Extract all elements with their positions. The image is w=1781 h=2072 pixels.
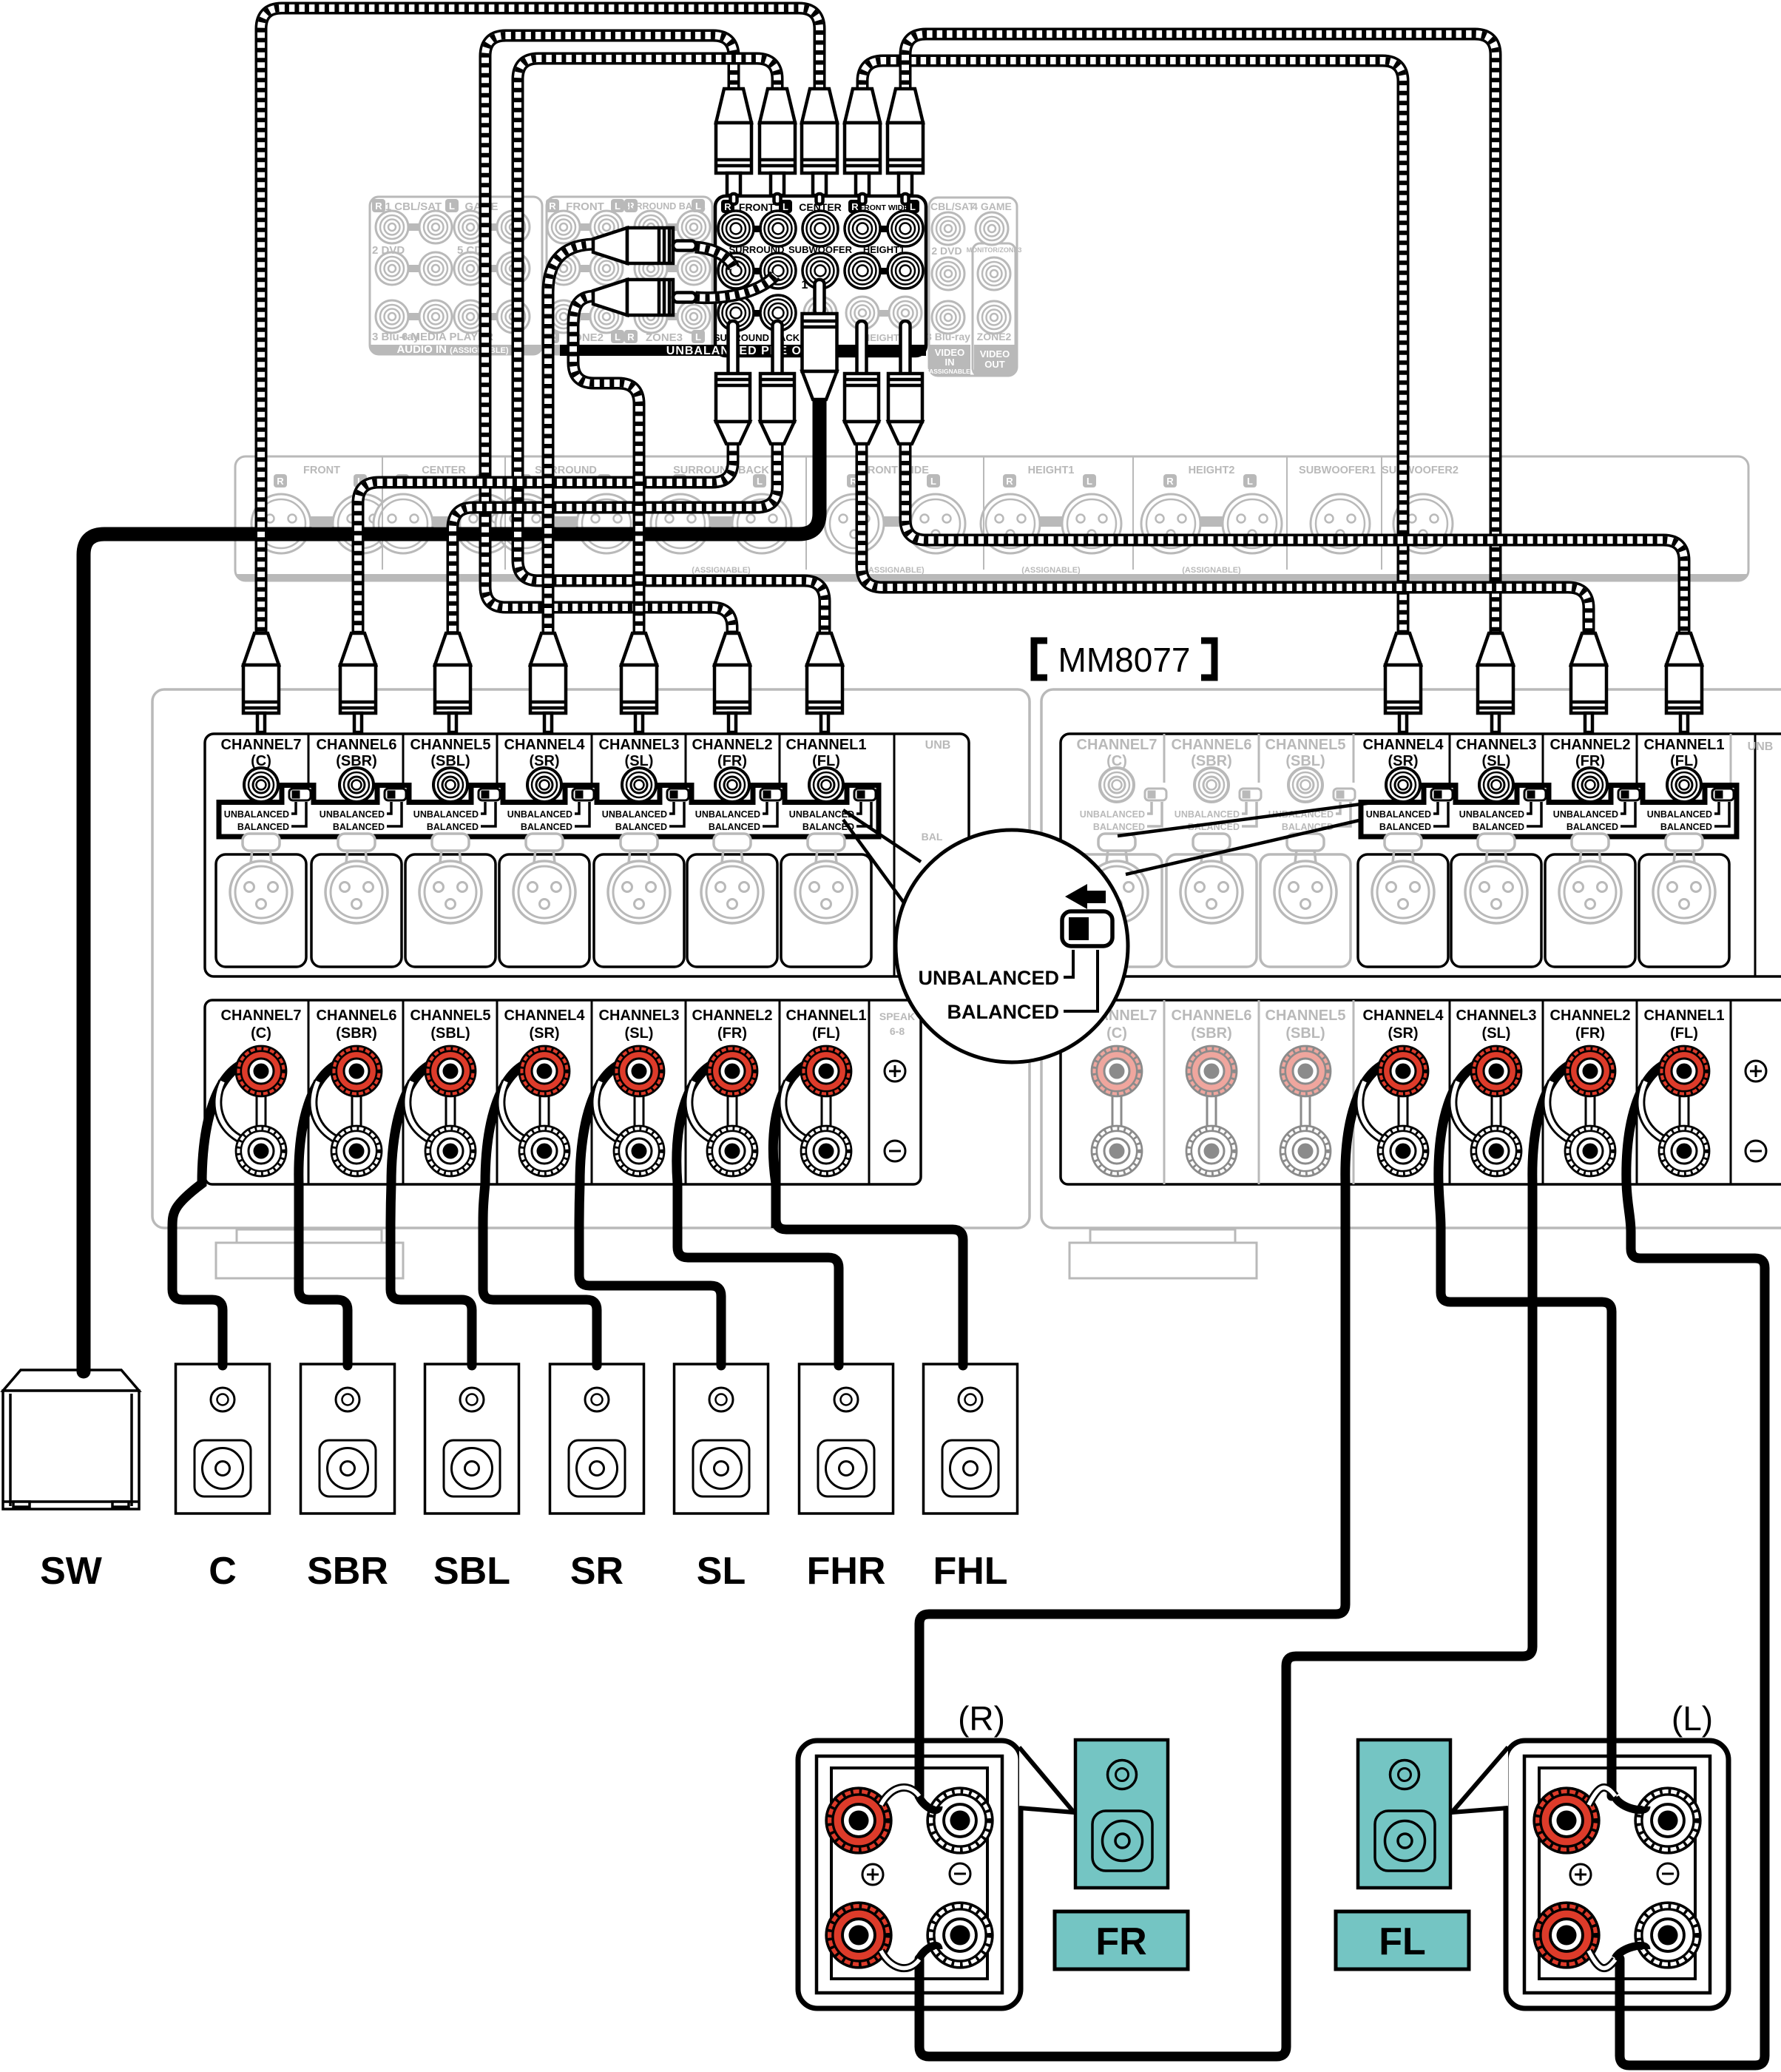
svg-text:SUBWOOFER1: SUBWOOFER1 [1299,465,1376,476]
svg-text:CHANNEL1: CHANNEL1 [786,1008,867,1024]
speaker terminals CHANNEL1 [1644,1008,1725,1176]
speaker terminals CHANNEL3 [1456,1008,1537,1176]
RCA plug at pre-out SURROUND BACK L jack [760,321,794,444]
subwoofer cable SW [84,392,819,1371]
svg-text:C: C [209,1550,237,1593]
svg-text:CHANNEL6: CHANNEL6 [317,1008,397,1024]
RCA plug into pre-out FRONT L jack [760,89,795,204]
terminal wire hook [595,1081,621,1141]
svg-text:HEIGHT1: HEIGHT1 [1028,465,1075,476]
cable stub into SURROUND L jack [695,275,775,298]
cable FRONT WIDE L pre-out to right amp CH3 [905,34,1496,638]
svg-text:SPEAK: SPEAK [879,1010,915,1022]
RCA plug into left amp CHANNEL3 [621,633,657,732]
amp input CHANNEL7 (C) [1077,737,1166,832]
svg-text:R: R [1166,476,1174,487]
svg-text:R: R [277,476,284,487]
svg-text:CHANNEL2: CHANNEL2 [692,737,773,753]
speaker wire to FHR [677,1062,839,1366]
subwoofer SW [3,1370,139,1509]
terminal wire hook [407,1081,433,1141]
svg-text:CHANNEL7: CHANNEL7 [221,737,302,753]
svg-text:BAL: BAL [922,831,943,843]
UNBALANCED PRE OUT block (black) [560,196,926,357]
svg-text:CHANNEL5: CHANNEL5 [410,737,491,753]
svg-text:(FR): (FR) [717,1025,747,1042]
svg-text:FHL: FHL [933,1550,1007,1593]
XLR bay [781,854,871,967]
pointer wedge speaker FL to box L [1452,1747,1508,1812]
speaker terminals CHANNEL4 [504,1008,586,1176]
svg-text:CHANNEL3: CHANNEL3 [599,737,680,753]
speaker SBL [425,1364,519,1513]
XLR bay [405,854,496,967]
svg-text:CENTER: CENTER [422,465,466,476]
speaker terminals CHANNEL3 [599,1008,680,1176]
svg-text:IN: IN [945,357,955,368]
svg-text:BALANCED: BALANCED [427,822,479,832]
svg-text:UNB: UNB [925,739,951,752]
svg-text:CHANNEL1: CHANNEL1 [786,737,867,753]
svg-text:(SR): (SR) [1388,1025,1418,1042]
svg-text:UNBALANCED PRE OUT: UNBALANCED PRE OUT [666,345,819,357]
svg-text:(SL): (SL) [1482,1025,1511,1042]
svg-text:L: L [615,200,621,212]
RCA plug into left amp CHANNEL6 [340,633,376,732]
amp input CHANNEL6 (SBR) [317,737,406,832]
XLR bay [1451,854,1541,967]
right amp speaker terminal box [1061,1000,1781,1184]
svg-text:L: L [615,331,621,342]
terminal wire hook [1640,1081,1666,1141]
svg-text:UNBALANCED: UNBALANCED [1080,809,1145,820]
magnifier bubble [896,830,1128,1062]
receiver rear panel AUDIO IN block (gray) [370,197,542,356]
svg-text:CHANNEL3: CHANNEL3 [1456,1008,1537,1024]
svg-text:FRONT: FRONT [566,200,604,213]
cable SURROUND BACK L pre-out to left amp CH5 [453,441,777,638]
svg-text:(SBL): (SBL) [1285,1025,1325,1042]
svg-text:(FL): (FL) [812,1025,840,1042]
cable SURROUND BACK R pre-out to left amp CH6 [358,441,733,638]
front speaker FL (teal) [1336,1740,1469,1969]
svg-text:UNBALANCED: UNBALANCED [1459,809,1524,820]
speaker terminals CHANNEL6 [317,1008,397,1176]
svg-text:(ASSIGNABLE): (ASSIGNABLE) [865,566,925,575]
svg-text:(ASSIGNABLE): (ASSIGNABLE) [1182,566,1241,575]
svg-text:CHANNEL1: CHANNEL1 [1644,737,1725,753]
RCA plug into left amp CHANNEL7 [243,633,279,732]
svg-text:UNBALANCED: UNBALANCED [602,809,667,820]
speaker terminals CHANNEL6 [1172,1008,1252,1176]
svg-text:UNBALANCED: UNBALANCED [320,809,385,820]
speaker wire to SBR [299,1062,348,1366]
speaker SL [675,1364,768,1513]
RCA plug into right amp CHANNEL4 [1385,633,1421,732]
svg-text:CHANNEL3: CHANNEL3 [1456,737,1537,753]
svg-text:FR: FR [1095,1920,1146,1963]
terminal wire hook [783,1081,808,1141]
svg-text:1 CBL/SAT: 1 CBL/SAT [922,200,975,212]
XLR bay [216,854,306,967]
svg-text:CHANNEL3: CHANNEL3 [599,1008,680,1024]
terminal wire hook [1359,1081,1385,1141]
svg-text:L: L [695,331,701,342]
speaker wire R.CH1 to (L) box bottom [1620,1062,1765,2065]
bi-amp speaker terminal box (R) [798,1741,1021,2008]
RCA plug at pre-out SURROUND BACK R jack [716,321,750,444]
speaker terminals CHANNEL5 [410,1008,491,1176]
amp input CHANNEL2 (FR) [1550,737,1640,832]
cable FRONT R pre-out to left amp CH2 [485,36,734,638]
speaker wire to C [172,1062,246,1366]
svg-text:FRONT WIDE: FRONT WIDE [861,465,929,476]
speaker wire to FHL [773,1062,963,1366]
speaker terminals CHANNEL2 [692,1008,773,1176]
speaker terminals CHANNEL1 [786,1008,867,1176]
svg-text:R: R [627,331,635,342]
svg-text:(ASSIGNABLE): (ASSIGNABLE) [927,368,973,375]
svg-text:BALANCED: BALANCED [709,822,760,832]
left amp speaker terminal box [205,1000,921,1184]
bubble arrow [1065,884,1087,909]
bubble switch icon [1062,911,1112,946]
svg-text:SL: SL [697,1550,746,1593]
speaker terminals CHANNEL7 [221,1008,302,1176]
amp input CHANNEL4 (SR) [1363,737,1453,832]
XLR bay [1166,854,1257,967]
svg-text:CHANNEL5: CHANNEL5 [1265,737,1346,753]
amp input CHANNEL5 (SBL) [410,737,500,832]
svg-text:UNBALANCED: UNBALANCED [1647,809,1712,820]
svg-text:SW: SW [40,1550,103,1593]
RCA plug into left amp CHANNEL5 [435,633,470,732]
RCA plug into SURROUND L jack [593,280,696,315]
svg-text:(C): (C) [251,1025,271,1042]
svg-text:BALANCED: BALANCED [333,822,385,832]
amp input CHANNEL3 (SL) [599,737,689,832]
cable HEIGHT1 L pre-out to right amp CH1 [905,441,1684,638]
svg-text:CHANNEL6: CHANNEL6 [1172,737,1252,753]
svg-text:UNBALANCED: UNBALANCED [413,809,479,820]
svg-text:4 GAME: 4 GAME [972,200,1012,212]
svg-text:CHANNEL2: CHANNEL2 [1550,1008,1631,1024]
svg-text:R: R [549,200,556,212]
speaker C [176,1364,270,1513]
front speaker FR (teal) [1055,1740,1188,1969]
svg-text:MONITOR/ZONE3: MONITOR/ZONE3 [967,246,1022,254]
RCA plug into left amp CHANNEL4 [530,633,566,732]
RCA plug into left amp CHANNEL2 [714,633,750,732]
left amp input box [205,734,969,976]
svg-text:L: L [757,476,763,487]
svg-text:UNB: UNB [1748,740,1774,753]
amp input CHANNEL6 (SBR) [1172,737,1261,832]
RCA plug into pre-out FRONT WIDE L jack [888,89,923,204]
right amp input box [1061,734,1781,976]
svg-text:CHANNEL4: CHANNEL4 [1363,737,1444,753]
subwoofer cable plug [802,280,837,399]
svg-text:(R): (R) [958,1699,1005,1738]
svg-text:CHANNEL5: CHANNEL5 [410,1008,491,1024]
svg-text:HEIGHT2: HEIGHT2 [1189,465,1235,476]
cable CENTER pre-out to left amp CH7 [261,8,819,638]
svg-text:(L): (L) [1672,1699,1713,1738]
amp input CHANNEL3 (SL) [1456,737,1546,832]
speaker wire to SL [579,1062,721,1366]
svg-text:FL: FL [1379,1920,1426,1963]
svg-text:ZONE2: ZONE2 [977,331,1012,342]
speaker wire to SR [483,1062,597,1366]
magnifier bubble pointer lines [843,810,921,908]
svg-text:BALANCED: BALANCED [1567,822,1618,832]
amp input CHANNEL4 (SR) [504,737,594,832]
svg-text:OUT: OUT [984,359,1005,370]
amp input CHANNEL7 (C) [221,737,311,832]
svg-text:SUBWOOFER2: SUBWOOFER2 [1382,465,1459,476]
svg-text:R: R [1006,476,1013,487]
RCA plug into pre-out FRONT R jack [716,89,751,204]
terminal wire hook [501,1081,527,1141]
svg-text:CHANNEL2: CHANNEL2 [692,1008,773,1024]
MM8077 left amplifier body (gray) [152,689,1030,1228]
svg-text:BALANCED: BALANCED [237,822,289,832]
cable FRONT L pre-out to left amp CH1 [518,58,825,638]
svg-text:UNBALANCED: UNBALANCED [1366,809,1431,820]
svg-text:2 DVD: 2 DVD [372,244,405,257]
speaker terminals CHANNEL2 [1550,1008,1631,1176]
svg-text:UNBALANCED: UNBALANCED [507,809,572,820]
speaker wire to SBL [391,1062,472,1366]
svg-text:CHANNEL2: CHANNEL2 [1550,737,1631,753]
RCA plug into right amp CHANNEL3 [1478,633,1513,732]
svg-text:1 CBL/SAT: 1 CBL/SAT [385,200,442,213]
speaker SR [550,1364,644,1513]
XLR bay [1072,854,1162,967]
svg-text:CHANNEL5: CHANNEL5 [1265,1008,1346,1024]
svg-text:UNBALANCED: UNBALANCED [919,967,1060,989]
svg-text:SR: SR [570,1550,623,1593]
svg-text:CHANNEL1: CHANNEL1 [1644,1008,1725,1024]
terminal wire hook [217,1081,243,1141]
svg-text:BALANCED: BALANCED [615,822,667,832]
svg-text:FRONT: FRONT [739,201,775,213]
right amp unbalanced/balanced selector band [1361,786,1737,837]
svg-text:UNBALANCED: UNBALANCED [224,809,289,820]
speaker terminals CHANNEL4 [1363,1008,1444,1176]
svg-text:UNBALANCED: UNBALANCED [695,809,760,820]
receiver rear panel right gray block (video) [922,198,1021,376]
svg-text:6-8: 6-8 [890,1025,905,1037]
svg-text:(SBR): (SBR) [336,1025,377,1042]
speaker terminals CHANNEL5 [1265,1008,1346,1176]
terminal box wire splits [919,1798,939,1810]
pointer wedge box R to speaker FR [1019,1747,1074,1812]
left amp unbalanced/balanced selector band [219,786,879,837]
svg-text:SBL: SBL [433,1550,510,1593]
svg-text:CHANNEL7: CHANNEL7 [221,1008,302,1024]
RCA plug into pre-out FRONT WIDE R jack [845,89,880,204]
amp input CHANNEL1 (FL) [786,737,876,832]
terminal wire hook [689,1081,714,1141]
svg-text:BALANCED: BALANCED [1379,822,1431,832]
svg-text:L: L [930,476,936,487]
svg-text:(C): (C) [1106,1025,1127,1042]
RCA plug into left amp CHANNEL1 [807,633,842,732]
svg-text:BALANCED: BALANCED [1093,822,1145,832]
speaker wire R.CH4 to (R) box top [919,1062,1388,1796]
svg-text:BALANCED: BALANCED [1473,822,1524,832]
XLR bay [1358,854,1448,967]
terminal box wire splits [1615,1798,1646,1810]
svg-text:BALANCED: BALANCED [1660,822,1712,832]
XLR bay [687,854,777,967]
speaker FHR [800,1364,893,1513]
svg-text:(SBL): (SBL) [430,1025,470,1042]
svg-text:CHANNEL4: CHANNEL4 [504,1008,586,1024]
XLR bay [1639,854,1729,967]
MM8077 right amplifier body (gray) [1041,689,1781,1228]
RCA plug into pre-out CENTER jack [802,89,837,204]
svg-text:L: L [695,200,701,212]
amp input CHANNEL5 (SBL) [1265,737,1355,832]
receiver XLR pre-out panel (gray) [235,456,1748,581]
svg-text:FHR: FHR [807,1550,886,1593]
RCA plug at pre-out HEIGHT1 R jack [845,321,879,444]
XLR bay [311,854,402,967]
svg-text:(SBR): (SBR) [1191,1025,1232,1042]
svg-text:UNBALANCED: UNBALANCED [1553,809,1618,820]
svg-text:(SL): (SL) [625,1025,654,1042]
svg-text:(FL): (FL) [1670,1025,1698,1042]
svg-text:BALANCED: BALANCED [947,1001,1060,1023]
svg-text:L: L [1247,476,1253,487]
amp input CHANNEL1 (FL) [1644,737,1734,832]
bi-amp speaker terminal box (L) [1506,1741,1728,2008]
svg-text:FRONT: FRONT [303,465,340,476]
speaker wire R.CH3 to (L) box top [1439,1062,1612,1796]
svg-text:R: R [375,200,382,212]
svg-text:L: L [449,200,455,212]
cable SURROUND R plug tail to left amp CH4 [548,244,596,638]
pre-out jacks [736,226,778,232]
svg-text:(SR): (SR) [529,1025,559,1042]
amp input CHANNEL2 (FR) [692,737,782,832]
RCA plug at pre-out HEIGHT1 L jack [888,321,922,444]
XLR bay [1260,854,1351,967]
RCA plug into SURROUND R jack [593,228,696,263]
svg-text:5 CD: 5 CD [457,244,482,257]
svg-text:(ASSIGNABLE): (ASSIGNABLE) [692,566,751,575]
speaker terminals CHANNEL7 [1077,1008,1158,1176]
svg-text:ZONE3: ZONE3 [646,331,683,344]
receiver rear panel middle gray block [546,197,712,354]
cable FRONT WIDE R pre-out to right amp CH4 [862,61,1403,638]
speaker FHL [924,1364,1018,1513]
speaker wire R.CH2 to (R) box bottom [919,1062,1575,2056]
svg-text:3 Blu-ray: 3 Blu-ray [926,331,970,342]
svg-text:CHANNEL4: CHANNEL4 [504,737,586,753]
XLR bay [499,854,589,967]
svg-text:BALANCED: BALANCED [521,822,572,832]
terminal wire hook [1547,1081,1572,1141]
svg-text:UNBALANCED: UNBALANCED [1175,809,1240,820]
speaker SBR [301,1364,395,1513]
XLR bay [594,854,684,967]
svg-text:L: L [1086,476,1092,487]
svg-text:SBR: SBR [307,1550,388,1593]
RCA plug into right amp CHANNEL2 [1571,633,1606,732]
svg-text:MM8077: MM8077 [1058,641,1191,679]
svg-text:CHANNEL4: CHANNEL4 [1363,1008,1444,1024]
svg-text:CHANNEL6: CHANNEL6 [317,737,397,753]
svg-text:VIDEO: VIDEO [980,348,1010,360]
RCA plug into right amp CHANNEL1 [1666,633,1702,732]
svg-text:(FR): (FR) [1575,1025,1605,1042]
svg-text:CHANNEL6: CHANNEL6 [1172,1008,1252,1024]
cable HEIGHT1 R pre-out to right amp CH2 [862,441,1589,638]
cable SURROUND L plug tail to left amp CH3 [573,296,639,638]
svg-text:(ASSIGNABLE): (ASSIGNABLE) [1021,566,1081,575]
cable stub into SURROUND R jack [695,247,734,268]
terminal wire hook [313,1081,339,1141]
MM8077 label [1034,641,1047,678]
terminal wire hook [1453,1081,1478,1141]
svg-text:HEIGHT2: HEIGHT2 [863,332,905,343]
XLR bay [1545,854,1635,967]
svg-text:CHANNEL7: CHANNEL7 [1077,737,1158,753]
svg-text:2 DVD: 2 DVD [931,245,962,257]
